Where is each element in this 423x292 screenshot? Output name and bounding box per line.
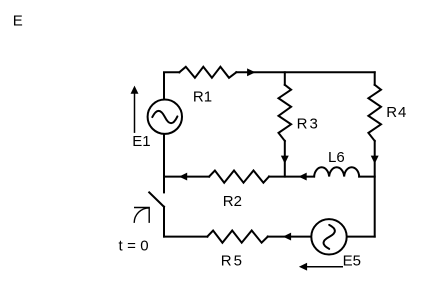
wire: middle rail left segment — [164, 176, 209, 178]
svg-text:E: E — [13, 12, 23, 29]
inductor L6 — [314, 167, 359, 176]
svg-text:L6: L6 — [328, 149, 345, 166]
resistor R1 — [179, 67, 236, 78]
wire: middle rail between R2 and L6 — [269, 176, 314, 178]
svg-text:R3: R3 — [297, 116, 320, 133]
voltage arrow for E1 (upward, beside source) — [131, 86, 139, 133]
svg-text:R1: R1 — [193, 88, 212, 105]
wire: right rail down to bottom-right corner — [374, 141, 376, 237]
svg-text:E5: E5 — [343, 253, 361, 270]
current arrow through R3 (downward) — [281, 156, 289, 164]
wire: top rail to right — [236, 71, 374, 73]
source E1 (AC) — [148, 100, 182, 134]
resistor R5 — [207, 231, 267, 243]
resistor R3 — [279, 85, 292, 141]
wire: E1 top lead and top-left corner — [164, 72, 179, 140]
current arrow through R4 (downward) — [371, 156, 379, 164]
wire: E1 bottom lead down to middle rail junction — [163, 93, 165, 177]
wire: R3 bottom lead — [284, 141, 286, 177]
resistor R2 — [209, 171, 269, 183]
current arrow on middle rail right of R3 junction (leftward) — [299, 173, 307, 181]
current arrow on bottom rail right of R5 (leftward) — [283, 233, 291, 241]
svg-text:R4: R4 — [386, 104, 407, 121]
wire: L6 right lead to right rail — [359, 176, 375, 178]
switch actuation arrow (curved, t=0) — [134, 208, 149, 223]
voltage arrow for E5 (leftward, below source) — [299, 263, 343, 271]
wire: bottom rail left segment — [164, 236, 207, 238]
source E5 (AC) — [311, 219, 346, 254]
wire: R3 top lead — [284, 72, 286, 85]
current arrow on middle rail near left junction (leftward) — [179, 173, 187, 181]
wire: R4 top lead — [374, 72, 376, 85]
wire: bottom rail from R5 to E5 and corner up — [268, 236, 375, 238]
switch SW blade (t=0) — [149, 192, 164, 206]
current arrow on top rail (rightward) — [247, 68, 255, 76]
svg-text:R5: R5 — [221, 253, 244, 270]
resistor R4 — [368, 85, 381, 141]
wire: switch bottom lead down to bottom-left corner — [163, 207, 165, 237]
svg-text:t=0: t=0 — [119, 238, 153, 255]
wire: switch top lead — [163, 177, 165, 193]
svg-text:E1: E1 — [132, 133, 150, 150]
svg-text:R2: R2 — [223, 193, 242, 210]
